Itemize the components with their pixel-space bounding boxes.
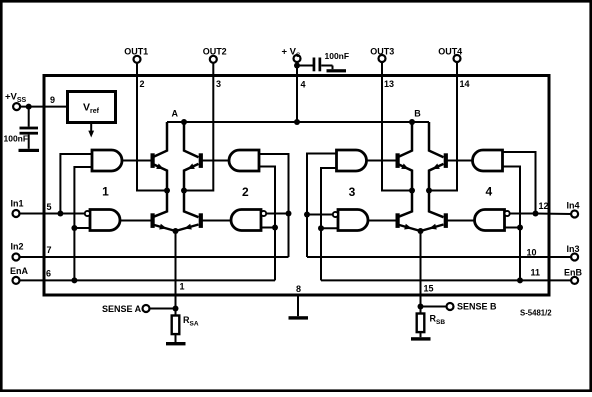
pin 9 label	[50, 95, 55, 105]
AND gate 3 upper	[337, 150, 367, 171]
transistor Q6 (sink, bridge)	[396, 191, 421, 232]
svg-text:100nF: 100nF	[325, 51, 350, 61]
pin 12 label	[539, 201, 549, 211]
node In2 junction	[286, 211, 292, 217]
Vref block	[68, 92, 116, 123]
transistor Q3 (source, bridge)	[184, 122, 203, 191]
svg-text:8: 8	[296, 284, 301, 294]
wire In2 to gate2-lower inverting input	[266, 213, 288, 215]
wire In4 (pin 12)	[536, 213, 572, 216]
node sense B	[418, 304, 424, 310]
node In3 junction	[304, 212, 310, 218]
terminal In3	[567, 244, 580, 261]
node EnA gate2-lower tap	[272, 225, 278, 231]
terminal OUT2	[203, 46, 227, 63]
node EnA gate1-lower tap	[71, 225, 77, 231]
wire OUT2 (pin 3)	[186, 63, 213, 191]
ground (RSB)	[411, 332, 431, 341]
wire In3 (pin 10)	[307, 256, 571, 258]
svg-text:3: 3	[349, 185, 356, 199]
pin 13 label	[384, 79, 394, 89]
ground (pin 8)	[289, 316, 309, 319]
svg-text:7: 7	[47, 245, 52, 255]
transistor Q4 (sink, bridge)	[176, 191, 203, 232]
wire gate2-upper output to Q3 base	[203, 160, 230, 162]
wire gate2-lower output to Q4 base	[203, 220, 232, 222]
wire EnA (pin 6)	[19, 279, 275, 281]
node B	[409, 109, 421, 126]
wire EnB to gate3-lower input	[321, 227, 338, 229]
wire to SENSE B terminal	[421, 306, 447, 308]
svg-text:1: 1	[180, 282, 185, 292]
svg-text:5: 5	[47, 202, 52, 212]
svg-text:EnB: EnB	[564, 268, 583, 278]
resistor RSA	[172, 315, 199, 334]
wire EnA riser to gate1 inputs	[74, 167, 92, 280]
pin 10 label	[527, 248, 537, 258]
wire In4 riser to gate4-upper input	[503, 152, 536, 214]
terminal +Vss	[5, 92, 27, 111]
wire EnA to gate1-lower input	[74, 227, 90, 229]
svg-text:4: 4	[485, 185, 492, 199]
wire +Vss to Vref (pin 9)	[20, 106, 68, 108]
svg-text:11: 11	[531, 268, 541, 278]
pin 5 label	[47, 202, 52, 212]
svg-text:S-5481/2: S-5481/2	[520, 309, 552, 318]
svg-text:SENSE B: SENSE B	[457, 302, 497, 312]
svg-text:2: 2	[242, 185, 249, 199]
figure number	[520, 309, 552, 318]
node emitter B (pin 15)	[418, 228, 424, 234]
pin 1 label	[180, 282, 185, 292]
ground (RSA)	[166, 334, 186, 345]
terminal In4	[567, 201, 580, 218]
pin 14 label	[460, 79, 470, 89]
IC outline U1	[44, 76, 549, 296]
transistor Q8 (sink, bridge)	[421, 191, 448, 232]
ground (Vs cap)	[327, 69, 347, 72]
svg-text:6: 6	[46, 269, 51, 279]
terminal EnB	[564, 268, 583, 284]
svg-text:4: 4	[301, 80, 306, 90]
pin 4 label	[301, 80, 306, 90]
wire pin 8 to ground	[297, 294, 299, 316]
wire emitter B to sense (pin 15)	[420, 231, 422, 314]
wire gate4-upper output to Q7 base	[448, 160, 473, 162]
svg-text:In4: In4	[567, 201, 580, 211]
terminal OUT3	[370, 46, 394, 62]
pin 3 label	[216, 79, 221, 89]
svg-text:12: 12	[539, 201, 549, 211]
wire EnB to gate4-lower input	[505, 227, 521, 229]
svg-text:3: 3	[216, 79, 221, 89]
gate pair 1 label	[102, 185, 109, 199]
pin 15 label	[424, 284, 434, 294]
pin 6 label	[46, 269, 51, 279]
svg-text:OUT4: OUT4	[438, 46, 462, 56]
wire In3 riser to gate3-upper input	[307, 154, 337, 258]
svg-text:100nF: 100nF	[4, 134, 29, 144]
svg-text:In2: In2	[11, 242, 24, 252]
capacitor 100nF (Vss)	[4, 107, 39, 149]
wire OUT4 (pin 14)	[431, 62, 457, 191]
terminal In2	[11, 242, 24, 261]
wire In1 to gate1-upper input	[60, 154, 92, 214]
terminal SENSE A	[102, 304, 149, 314]
terminal SENSE B	[447, 302, 498, 312]
AND gate 4 upper	[473, 150, 503, 171]
terminal +Vs	[282, 46, 302, 62]
node A	[172, 109, 187, 126]
wire gate1-upper output to Q1 base	[122, 160, 151, 162]
wire Vs rail A to B	[167, 121, 429, 123]
pin 8 label	[296, 284, 301, 294]
node OUT1 junction	[164, 188, 170, 194]
svg-text:15: 15	[424, 284, 434, 294]
node In4 junction	[533, 211, 539, 217]
wire In2 riser to gate2-upper input	[259, 154, 289, 257]
AND gate 1 lower (inverting input)	[85, 210, 120, 231]
capacitor 100nF (Vs)	[297, 51, 349, 71]
svg-text:1: 1	[102, 185, 109, 199]
wire EnB (pin 11)	[321, 279, 571, 281]
ground (Vss cap)	[19, 149, 40, 152]
node OUT2 junction	[181, 188, 187, 194]
wire OUT1 (pin 2)	[137, 63, 165, 191]
wire EnB riser to gate3 inputs	[321, 168, 337, 280]
node OUT3 junction	[409, 188, 415, 194]
node sense A	[173, 306, 179, 312]
wire In3 to gate3-lower inverting input	[307, 214, 333, 216]
wire +Vs (pin 4) to A-B rail	[296, 62, 298, 122]
node +Vs junction	[294, 63, 300, 69]
wire gate3-lower output to Q6 base	[368, 220, 396, 222]
node In1 junction	[57, 211, 63, 217]
svg-text:EnA: EnA	[10, 266, 29, 276]
svg-text:SENSE A: SENSE A	[102, 304, 142, 314]
AND gate 4 lower (inverting input)	[475, 210, 510, 231]
node EnA junction	[71, 277, 77, 283]
svg-text:OUT1: OUT1	[124, 46, 148, 56]
pin 2 label	[140, 79, 145, 89]
Vref output arrow	[88, 123, 94, 138]
wire EnB riser to gate4 inputs	[503, 167, 521, 281]
transistor Q7 (source, bridge)	[429, 122, 448, 191]
wire OUT3 (pin 13)	[382, 62, 410, 191]
svg-text:10: 10	[527, 248, 537, 258]
gate pair 4 label	[485, 185, 492, 199]
transistor Q2 (sink, bridge)	[151, 191, 176, 232]
wire gate4-lower output to Q8 base	[448, 220, 475, 222]
node EnB junction	[517, 277, 523, 283]
terminal EnA	[10, 266, 29, 284]
transistor Q1 (source, bridge)	[151, 122, 168, 191]
svg-text:OUT2: OUT2	[203, 46, 227, 56]
node emitter A (pin 1)	[173, 228, 179, 234]
svg-text:A: A	[172, 109, 179, 119]
svg-text:13: 13	[384, 79, 394, 89]
node Vs rail junction	[294, 119, 300, 125]
terminal In1	[11, 199, 24, 218]
wire EnA to gate2-lower input	[261, 227, 275, 229]
wire gate3-upper output to Q5 base	[367, 160, 396, 162]
node Vss junction	[26, 104, 32, 110]
svg-text:14: 14	[460, 79, 470, 89]
node OUT4 junction	[426, 188, 432, 194]
pin 7 label	[47, 245, 52, 255]
pin 11 label	[531, 268, 541, 278]
wire emitter A to sense (pin 1)	[175, 231, 177, 316]
wire gate1-lower output to Q2 base	[121, 220, 151, 222]
svg-text:In3: In3	[567, 244, 580, 254]
node EnB gate4-lower tap	[517, 225, 523, 231]
wire to SENSE A terminal	[149, 308, 175, 310]
AND gate 1 upper	[92, 150, 122, 171]
transistor Q5 (source, bridge)	[396, 122, 413, 191]
svg-text:B: B	[414, 109, 421, 119]
wire In4 to gate4-lower inverting input	[510, 213, 536, 215]
wire In2 (pin 7)	[19, 256, 288, 258]
node EnB gate3-lower tap	[318, 225, 324, 231]
AND gate 3 lower (inverting input)	[333, 210, 368, 231]
terminal OUT4	[438, 46, 462, 62]
gate pair 3 label	[349, 185, 356, 199]
AND gate 2 lower (inverting input)	[231, 210, 266, 231]
svg-text:OUT3: OUT3	[370, 46, 394, 56]
svg-text:In1: In1	[11, 199, 24, 209]
wire EnA riser to gate2 inputs	[259, 167, 275, 281]
AND gate 2 upper	[229, 150, 259, 171]
terminal OUT1	[124, 46, 148, 63]
svg-text:2: 2	[140, 79, 145, 89]
svg-text:9: 9	[50, 95, 55, 105]
gate pair 2 label	[242, 185, 249, 199]
wire In1 (pin 5)	[19, 213, 84, 215]
resistor RSB	[417, 314, 446, 333]
